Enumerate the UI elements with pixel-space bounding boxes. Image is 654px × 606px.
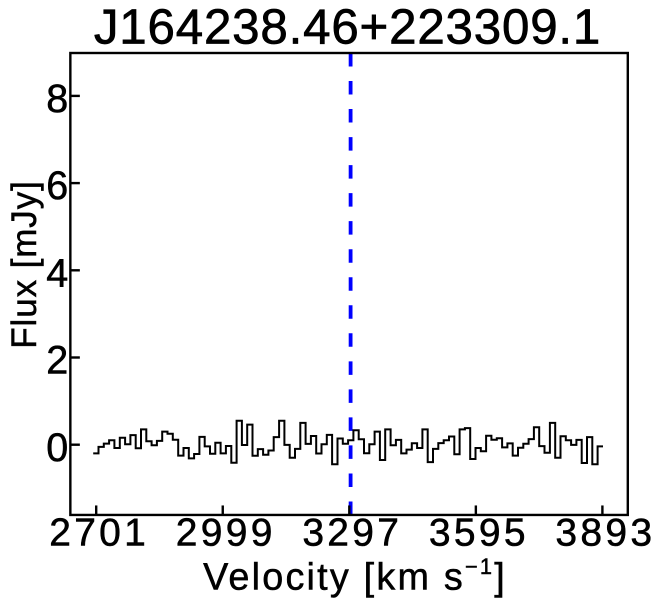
svg-text:2: 2	[46, 339, 68, 383]
svg-text:8: 8	[46, 77, 68, 121]
svg-text:0: 0	[46, 426, 68, 470]
svg-text:6: 6	[46, 164, 68, 208]
svg-text:2701: 2701	[49, 512, 149, 555]
svg-text:Flux [mJy]: Flux [mJy]	[5, 180, 44, 348]
svg-text:Velocity [km s−1]: Velocity [km s−1]	[203, 554, 507, 599]
svg-text:2999: 2999	[176, 512, 276, 555]
svg-text:J164238.46+223309.1: J164238.46+223309.1	[94, 0, 601, 55]
svg-text:3297: 3297	[302, 512, 402, 555]
svg-text:4: 4	[46, 251, 68, 295]
svg-text:3595: 3595	[429, 512, 529, 555]
svg-text:3893: 3893	[555, 512, 654, 555]
